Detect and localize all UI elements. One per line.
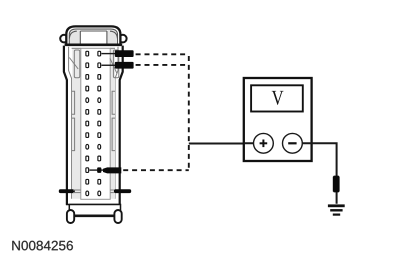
solid wire to voltmeter positive bbox=[189, 143, 256, 145]
connector J1 cap ears bbox=[60, 35, 126, 43]
wire from negative terminal to ground drop bbox=[299, 143, 337, 204]
voltmeter negative terminal bbox=[283, 133, 303, 153]
connector J1 lower-left mount tab bbox=[59, 189, 81, 193]
dashed test wire bottom horizontal bbox=[123, 169, 189, 171]
dashed test wire row1 horizontal bbox=[136, 53, 189, 55]
connector J1 upper-right latch panel bbox=[110, 50, 119, 78]
connector J1 body left wall bbox=[64, 46, 67, 205]
connector J1 pin shroud bbox=[81, 48, 110, 199]
wire stub from case edge to positive terminal bbox=[244, 142, 262, 144]
connector J1 right foot bbox=[114, 210, 121, 223]
connector J1 base bracket bbox=[69, 205, 120, 216]
connector J1 body right wall bbox=[120, 46, 123, 205]
connector J1 pin grid (13 rows x 2 columns) bbox=[86, 51, 101, 195]
connector J1 cap panel dividers bbox=[69, 31, 117, 45]
voltmeter label V bbox=[272, 91, 284, 105]
ground symbol G1 bbox=[328, 204, 345, 215]
dashed test wire vertical bus bbox=[188, 56, 190, 169]
connector J1 cap side panel shading bbox=[70, 30, 117, 45]
connector J1 channel top ledges bbox=[72, 47, 115, 49]
inline probe sleeve on ground wire bbox=[333, 176, 340, 193]
voltmeter U1 case bbox=[244, 78, 312, 161]
connector J1 lower-right mount tab bbox=[110, 189, 131, 193]
connector J1 cap inner line bbox=[69, 29, 117, 45]
voltmeter display window bbox=[251, 85, 303, 111]
figure number label bbox=[12, 241, 73, 251]
connector J1 cap bottom edge bbox=[65, 43, 123, 45]
voltmeter positive terminal bbox=[254, 133, 274, 153]
connector J1 body inner wall lines bbox=[69, 47, 72, 199]
connector J1 right wall ribs bbox=[112, 91, 115, 150]
connector J1 left wall ribs bbox=[72, 91, 75, 150]
connector J1 cap outer shell bbox=[66, 26, 120, 45]
probe lead row2 bbox=[101, 62, 133, 69]
dashed test wire row2 horizontal bbox=[136, 64, 189, 66]
connector J1 body bottom edge bbox=[66, 204, 121, 206]
connector J1 upper-left latch panel bbox=[69, 50, 80, 78]
probe lead row11 (lower) bbox=[89, 167, 121, 173]
connector J1 side channel shading bbox=[72, 49, 115, 199]
connector J1 base axle bar bbox=[71, 215, 119, 218]
probe lead row1 bbox=[101, 50, 133, 57]
connector J1 left foot bbox=[67, 210, 74, 223]
